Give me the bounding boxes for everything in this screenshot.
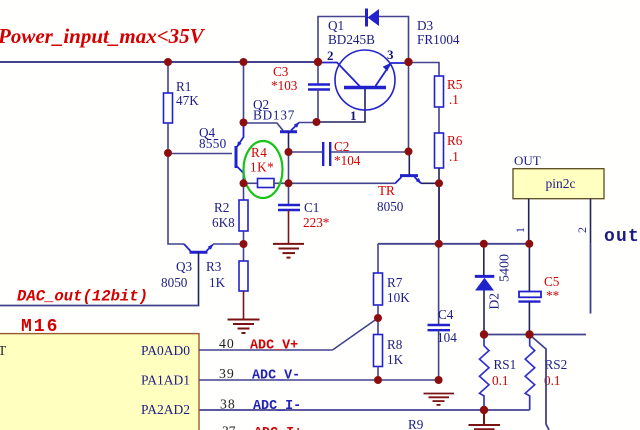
wire Q3 emitter to R2/R3 node xyxy=(213,243,244,245)
junction node pin3/D3 xyxy=(404,58,412,66)
svg-text:BD137: BD137 xyxy=(253,108,295,123)
capacitor C5 xyxy=(518,244,559,335)
svg-text:39: 39 xyxy=(219,366,235,381)
ground below R3 xyxy=(228,320,260,334)
junction node Q2 base/C2 xyxy=(285,148,293,156)
wire pin3 node to R5 column xyxy=(409,63,440,77)
wire DAC_out xyxy=(0,304,199,307)
svg-text:R5: R5 xyxy=(447,77,463,92)
svg-text:*103: *103 xyxy=(271,78,298,93)
svg-text:.1: .1 xyxy=(449,149,459,164)
wire Q2 collector to node xyxy=(244,123,284,131)
wire D3 top link xyxy=(318,17,366,63)
wire Q1 pin1 jog xyxy=(317,87,365,122)
pin 2 of OUT xyxy=(575,199,591,314)
transistor Q2 BD137 xyxy=(253,97,299,152)
svg-text:1K*: 1K* xyxy=(250,160,274,175)
junction node TR emitter/R6 xyxy=(435,179,443,187)
svg-text:D2: D2 xyxy=(487,293,502,310)
junction node R7/R8/ADC_V+ xyxy=(374,314,382,322)
pin 39 wire ADC_V- xyxy=(199,366,439,384)
svg-text:3: 3 xyxy=(387,47,394,62)
svg-text:0.1: 0.1 xyxy=(492,373,508,388)
resistor RS2 xyxy=(525,335,567,411)
junction node R1/Q4 base xyxy=(164,149,172,157)
svg-text:1K: 1K xyxy=(387,352,404,367)
svg-text:C1: C1 xyxy=(304,200,319,215)
svg-text:FR1004: FR1004 xyxy=(417,32,460,47)
green highlight ellipse around R4 xyxy=(244,141,283,198)
junction node output rail/R6 column xyxy=(435,240,443,248)
resistor R8 xyxy=(374,318,404,380)
svg-text:38: 38 xyxy=(220,397,236,412)
svg-text:5400: 5400 xyxy=(498,254,513,282)
svg-text:47K: 47K xyxy=(176,93,199,108)
svg-text:R4: R4 xyxy=(251,145,267,160)
svg-text:1K: 1K xyxy=(209,275,226,290)
wire output top rail xyxy=(378,243,529,245)
svg-text:2: 2 xyxy=(327,48,334,63)
junction node D2/RS1/sense rail xyxy=(480,330,488,338)
wire sense rail xyxy=(484,334,586,336)
junction node C3/Q1 pin1/Q2 emitter xyxy=(313,118,321,126)
junction node rail/Q4 column xyxy=(240,58,248,66)
junction node output rail/C5/pin1 xyxy=(525,240,533,248)
svg-text:R1: R1 xyxy=(176,79,191,94)
svg-text:37: 37 xyxy=(222,424,236,430)
svg-text:Power_input_max<35V: Power_input_max<35V xyxy=(0,24,206,48)
svg-text:8550: 8550 xyxy=(199,136,227,151)
svg-text:ADC_I+: ADC_I+ xyxy=(254,426,302,430)
capacitor C1 xyxy=(278,183,329,243)
resistor R6 xyxy=(435,133,463,183)
connector OUT pin2c xyxy=(513,153,604,199)
svg-text:C4: C4 xyxy=(438,307,454,322)
transistor TR 8050 xyxy=(377,152,421,215)
chip M16 box xyxy=(0,334,199,430)
wire rail to Q4/Q2 column xyxy=(243,62,245,123)
svg-text:*104: *104 xyxy=(334,153,361,168)
resistor R1 xyxy=(164,62,200,153)
wire ADC_I- bottom rail xyxy=(199,409,530,411)
diode D2 5400 xyxy=(475,244,513,335)
wire Q2 emitter to C3 node xyxy=(299,122,317,124)
pin 37 (clipped at bottom) xyxy=(222,424,302,430)
ground below C4 xyxy=(424,394,455,405)
capacitor C4 xyxy=(428,244,458,380)
diode D3 FR1004 xyxy=(367,9,460,48)
svg-text:8050: 8050 xyxy=(377,199,404,214)
junction node output rail/D2 xyxy=(480,240,488,248)
ground below C1 xyxy=(273,244,304,258)
junction node C5/RS2/sense rail xyxy=(525,330,533,338)
wire Q4 base xyxy=(168,153,232,155)
svg-text:PA2AD2: PA2AD2 xyxy=(141,402,190,417)
resistor R3 xyxy=(206,244,248,319)
wire power input rail xyxy=(0,61,318,63)
svg-text:DAC_out(12bit): DAC_out(12bit) xyxy=(17,288,148,306)
svg-text:C2: C2 xyxy=(334,139,349,154)
junction node rail/C3/D3 xyxy=(314,58,322,66)
svg-text:1: 1 xyxy=(513,227,527,233)
wire Q4 collector node to R2 xyxy=(243,183,245,200)
wire Q2 base / C2 left node xyxy=(288,152,290,183)
svg-text:2: 2 xyxy=(575,227,589,233)
svg-text:Q3: Q3 xyxy=(176,259,193,274)
junction node R2/R3/Q3 emitter xyxy=(240,240,248,248)
svg-text:out: out xyxy=(604,227,640,247)
svg-text:PA1AD1: PA1AD1 xyxy=(141,373,190,388)
capacitor C3 xyxy=(271,62,330,122)
svg-text:C5: C5 xyxy=(544,274,560,289)
svg-text:8050: 8050 xyxy=(161,275,188,290)
svg-text:TR: TR xyxy=(378,183,395,198)
resistor R2 xyxy=(212,200,248,244)
svg-text:R3: R3 xyxy=(206,259,222,274)
wire ADC_V+ diagonal xyxy=(333,318,379,350)
junction node rail/R1 xyxy=(164,58,172,66)
resistor R5 xyxy=(435,76,463,133)
svg-text:223*: 223* xyxy=(303,215,329,230)
svg-text:BD245B: BD245B xyxy=(328,32,375,47)
svg-text:ADC_I-: ADC_I- xyxy=(253,399,301,414)
svg-text:104: 104 xyxy=(437,330,457,345)
svg-text:.1: .1 xyxy=(449,92,459,107)
capacitor C2 xyxy=(289,139,409,168)
svg-text:R9: R9 xyxy=(408,417,424,430)
svg-text:10K: 10K xyxy=(387,290,410,305)
junction node R4/C1/TR collector xyxy=(285,179,293,187)
ground below RS1 xyxy=(469,410,501,429)
svg-text:R7: R7 xyxy=(387,275,403,290)
svg-text:OUT: OUT xyxy=(514,153,541,168)
wire C2 right to TR base node xyxy=(408,62,410,152)
svg-text:pin2c: pin2c xyxy=(546,176,576,191)
svg-text:40: 40 xyxy=(219,336,235,351)
junction node R8/ADC_V- xyxy=(374,376,382,384)
resistor R4 xyxy=(244,145,289,188)
junction node Q4 emitter/Q2 collector xyxy=(240,119,248,127)
wire sense node to R9 off-page xyxy=(531,336,549,430)
svg-text:**: ** xyxy=(546,288,559,303)
transistor Q4 8550 xyxy=(199,123,244,184)
wire TR emitter to R6 node xyxy=(421,182,439,184)
pin 40 wire ADC_V+ xyxy=(199,336,333,354)
svg-text:PA0AD0: PA0AD0 xyxy=(141,343,190,358)
svg-text:R8: R8 xyxy=(387,337,403,352)
svg-text:RS2: RS2 xyxy=(545,357,568,372)
resistor R7 xyxy=(374,244,411,318)
svg-text:D3: D3 xyxy=(417,18,434,33)
wire TR collector row xyxy=(289,182,396,184)
svg-text:ADC_V-: ADC_V- xyxy=(252,369,300,384)
transistor Q1 BD245B xyxy=(318,18,409,123)
svg-text:1: 1 xyxy=(350,108,357,123)
svg-text:R2: R2 xyxy=(214,200,229,215)
wire R6 node down to output rail xyxy=(438,183,440,244)
svg-text:ADC_V+: ADC_V+ xyxy=(250,339,298,354)
junction node TR base/C2 xyxy=(405,148,413,156)
pin 1 of OUT xyxy=(513,199,529,244)
svg-text:?T: ?T xyxy=(0,343,7,358)
junction node C4/ground/ADC_V- xyxy=(435,376,443,384)
svg-text:C3: C3 xyxy=(273,64,289,79)
svg-text:RS1: RS1 xyxy=(494,357,517,372)
svg-text:R6: R6 xyxy=(447,133,463,148)
junction node RS1/ground/ADC_I- rail xyxy=(480,406,488,414)
svg-text:6K8: 6K8 xyxy=(212,215,235,230)
svg-text:Q1: Q1 xyxy=(328,18,344,33)
resistor RS1 xyxy=(480,335,517,411)
transistor Q3 8050 xyxy=(161,244,213,306)
pin 38 wire ADC_I- xyxy=(220,397,301,415)
wire R1 node down to Q3 row xyxy=(168,153,184,244)
junction node Q4 collector/R4/R2 xyxy=(240,179,248,187)
